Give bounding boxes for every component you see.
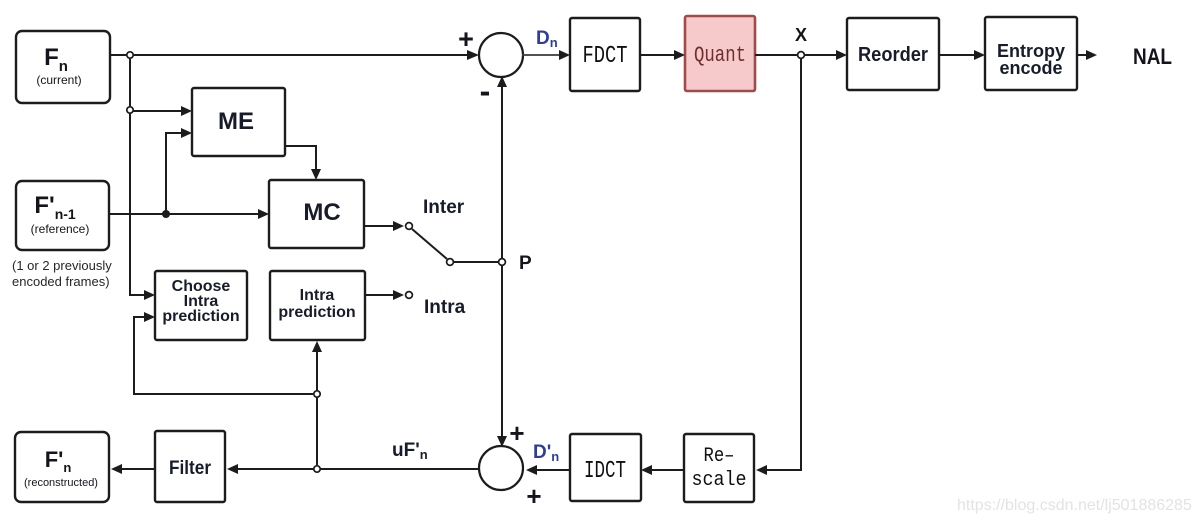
- svg-text:prediction: prediction: [278, 304, 355, 321]
- wire Reorder to Entropy: [939, 50, 985, 60]
- svg-text:prediction: prediction: [162, 308, 239, 325]
- wire IDCT to bottom sum: [526, 465, 570, 475]
- box F'n-1 (reference): [16, 181, 109, 250]
- wire Intra prediction to intra switch: [365, 290, 404, 300]
- svg-text:Quant: Quant: [694, 43, 746, 68]
- wire Entropy to NAL: [1077, 50, 1097, 60]
- svg-text:-: -: [480, 73, 491, 109]
- box Re-scale: [684, 434, 754, 502]
- wire Filter to F'n: [111, 464, 155, 474]
- wire P line down to adder: [497, 266, 507, 447]
- summing junction bottom (add): [479, 446, 523, 490]
- box Reorder: [847, 18, 939, 90]
- svg-text:Re–: Re–: [704, 445, 735, 468]
- box ME: [192, 88, 285, 156]
- wire bottom sum to Filter: [227, 464, 480, 474]
- svg-text:encode: encode: [999, 58, 1062, 78]
- wire FDCT to Quant: [640, 50, 685, 60]
- svg-text:ME: ME: [218, 108, 254, 135]
- node junction on Fn wire: [127, 52, 133, 58]
- wire P line up to subtractor: [497, 76, 507, 258]
- svg-text:(1 or 2 previously: (1 or 2 previously: [12, 258, 112, 273]
- wire top sum to FDCT: [522, 50, 570, 60]
- svg-text:Inter: Inter: [423, 197, 465, 218]
- svg-text:Filter: Filter: [169, 458, 212, 479]
- box FDCT: [570, 18, 640, 91]
- node X junction: [798, 52, 805, 59]
- wire F'n-1 to MC: [109, 209, 269, 219]
- wire switch arm diagonal: [412, 229, 447, 259]
- svg-text:(current): (current): [36, 73, 81, 87]
- svg-text:FDCT: FDCT: [583, 43, 628, 70]
- wire Fn vertical drop: [129, 58, 131, 295]
- svg-text:IDCT: IDCT: [584, 458, 626, 485]
- box Fn (current): [16, 31, 110, 103]
- node filled junction on F'n-1 wire: [162, 210, 170, 218]
- node junction feedback: [314, 391, 320, 397]
- svg-text:X: X: [795, 25, 807, 45]
- caption: 1 or 2 previously encoded frames: [12, 258, 112, 289]
- svg-text:Reorder: Reorder: [858, 44, 928, 66]
- wire X down to Re-scale: [756, 59, 801, 475]
- box IDCT: [570, 434, 641, 501]
- svg-text:+: +: [458, 24, 474, 54]
- box F'n (reconstructed): [15, 432, 109, 502]
- wire Re-scale to IDCT: [641, 465, 684, 475]
- node switch pole: [447, 259, 454, 266]
- svg-text:(reference): (reference): [31, 222, 90, 236]
- svg-text:scale: scale: [692, 469, 747, 492]
- wire to ME input 1: [133, 106, 192, 116]
- svg-text:+: +: [509, 418, 524, 448]
- node intra switch contact: [406, 292, 413, 299]
- node junction for ME feed: [127, 107, 133, 113]
- box Intra prediction: [270, 271, 365, 340]
- svg-text:Intra: Intra: [300, 287, 335, 304]
- box Entropy encode: [985, 17, 1077, 90]
- wire Fn to top sum: [110, 50, 479, 60]
- svg-text:encoded frames): encoded frames): [12, 274, 110, 289]
- wire uF'n up to Intra prediction: [312, 341, 322, 465]
- wire pole to P node: [454, 261, 498, 263]
- wire Quant to X node: [755, 54, 797, 56]
- wire feedback to Choose input 2: [134, 312, 313, 394]
- box MC: [269, 180, 364, 248]
- box Filter: [155, 431, 225, 502]
- node junction uF'n: [314, 466, 320, 472]
- svg-text:NAL: NAL: [1133, 44, 1172, 69]
- wire to Choose input 1: [130, 290, 155, 300]
- summing junction top (subtract): [479, 33, 523, 77]
- svg-text:P: P: [519, 253, 532, 274]
- svg-text:MC: MC: [303, 199, 340, 226]
- svg-text:+: +: [526, 481, 541, 511]
- node P junction: [499, 259, 506, 266]
- node inter switch contact: [406, 223, 413, 230]
- wire ME to MC: [285, 146, 321, 180]
- svg-text:https://blog.csdn.net/lj501886: https://blog.csdn.net/lj501886285: [957, 497, 1192, 514]
- box Choose Intra prediction: [155, 271, 247, 340]
- svg-text:Intra: Intra: [424, 297, 466, 318]
- svg-text:(reconstructed): (reconstructed): [24, 477, 98, 489]
- wire MC to inter switch: [364, 221, 404, 231]
- wire X to Reorder: [805, 50, 847, 60]
- wire to ME input 2: [166, 128, 192, 214]
- box Quant: [685, 16, 755, 91]
